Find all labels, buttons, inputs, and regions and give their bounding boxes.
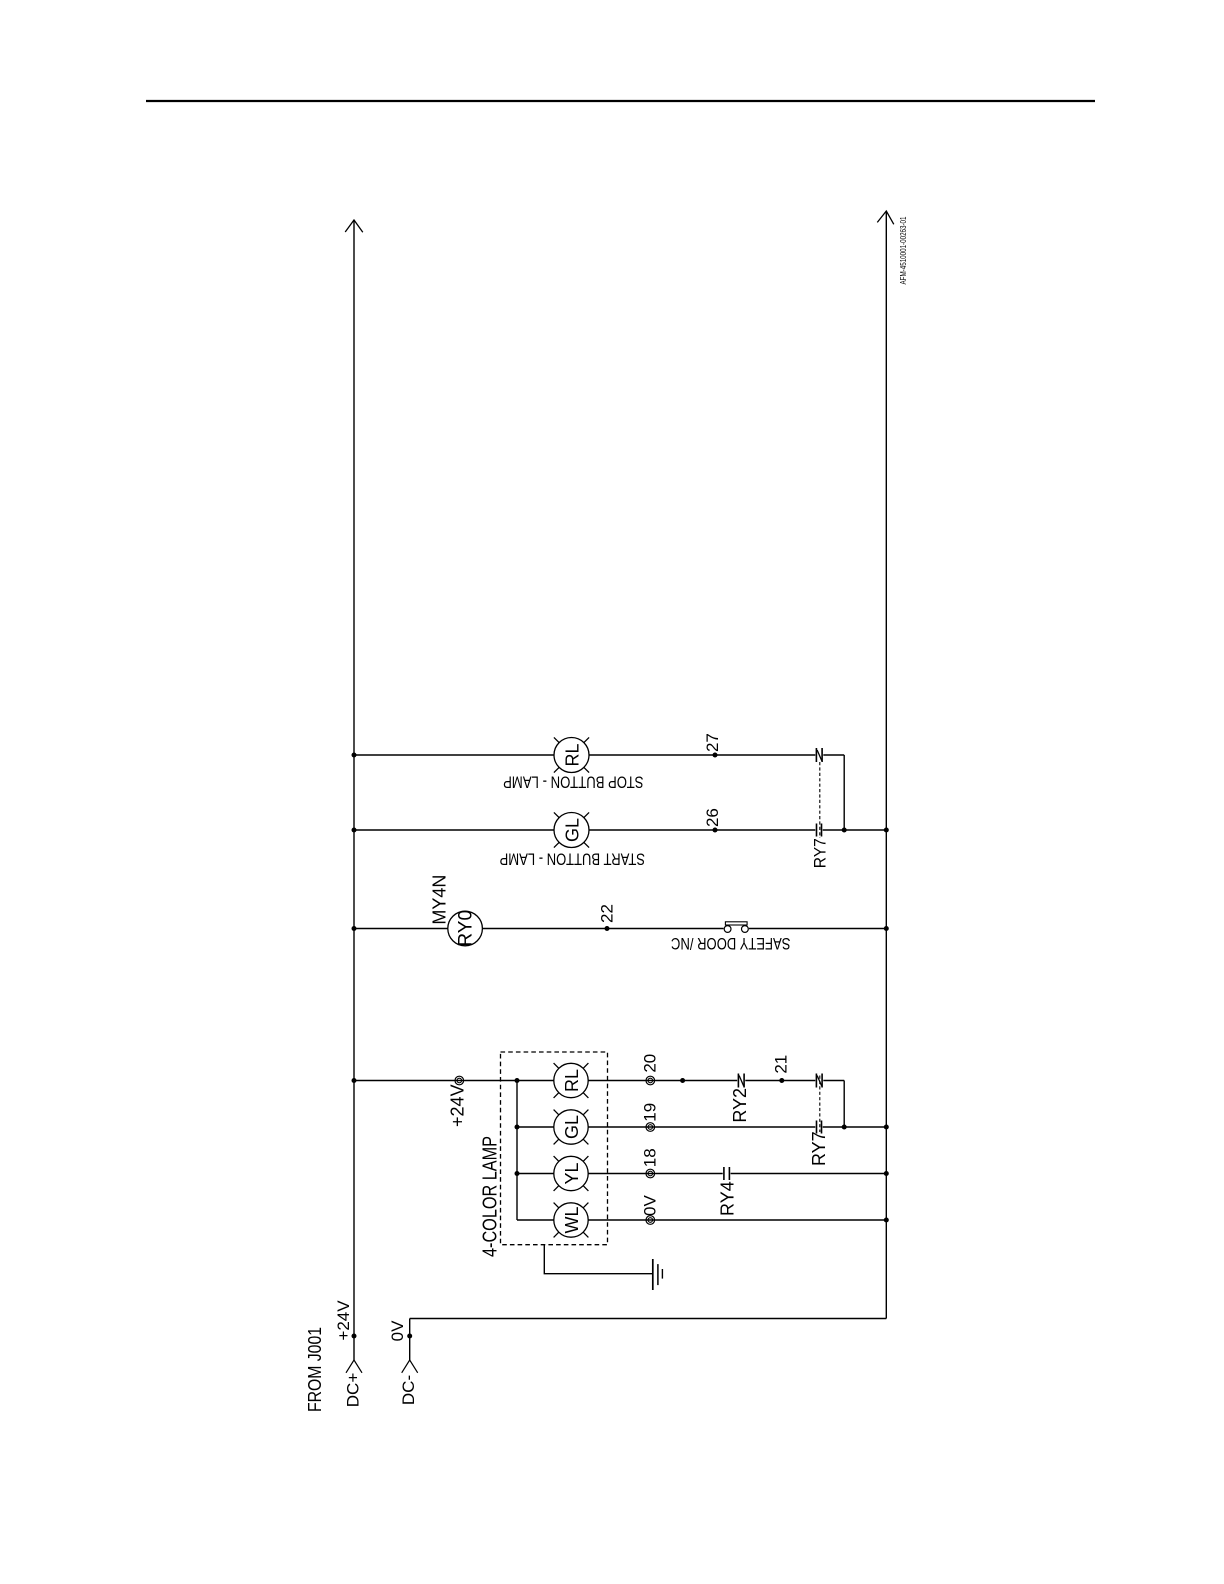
svg-text:RY7: RY7: [810, 838, 829, 868]
node rail2 GL: [884, 828, 889, 833]
node bus row3: [515, 1171, 520, 1176]
wire RY0 branch: [354, 928, 886, 930]
svg-text:RL: RL: [563, 743, 583, 766]
svg-text:4-COLOR LAMP: 4-COLOR LAMP: [480, 1136, 502, 1257]
connector DC+ chevron: [346, 1360, 362, 1373]
svg-text:19: 19: [641, 1103, 660, 1122]
lamp RL2: [554, 1063, 588, 1097]
terminal 0V: [646, 1216, 655, 1225]
svg-text:START BUTTON - LAMP: START BUTTON - LAMP: [500, 850, 646, 869]
svg-text:+24V: +24V: [334, 1300, 353, 1341]
node rail RY0: [352, 926, 357, 931]
switch SAFETY DOOR /NC: [724, 926, 731, 933]
svg-text:18: 18: [641, 1148, 660, 1167]
node +24V label: [352, 1334, 357, 1339]
node rail2 row3: [884, 1171, 889, 1176]
wire DC- feed: [409, 1319, 411, 1361]
wire lamp feed row1: [354, 1081, 844, 1128]
contact RY7b NO (GL branch): [817, 824, 822, 837]
svg-text:0V: 0V: [388, 1320, 407, 1341]
lamp WL2: [554, 1203, 588, 1237]
terminal 20: [646, 1076, 655, 1085]
lamp GL: [554, 813, 589, 848]
svg-text:GL: GL: [562, 1115, 582, 1139]
svg-text:STOP BUTTON - LAMP: STOP BUTTON - LAMP: [503, 772, 644, 791]
terminal 18: [646, 1169, 655, 1178]
wire 0V bottom horizontal: [410, 1318, 887, 1320]
svg-text:MY4N: MY4N: [430, 875, 450, 925]
svg-text:RY2: RY2: [730, 1088, 750, 1123]
svg-text:21: 21: [772, 1055, 791, 1074]
node RY7c join: [842, 1125, 847, 1130]
node 26: [713, 828, 718, 833]
node rail lampfeed: [352, 1078, 357, 1083]
svg-text:SAFETY DOOR /NC: SAFETY DOOR /NC: [671, 934, 791, 953]
wire lamp bus: [516, 1081, 518, 1221]
mech link RY7 top pair: [819, 762, 821, 838]
mech link RY7 right pair: [819, 1076, 821, 1133]
terminal +24V: [455, 1076, 464, 1085]
contact RY7d NO (row2): [817, 1121, 822, 1134]
svg-text:+24V: +24V: [448, 1084, 468, 1127]
svg-text:DC+: DC+: [344, 1373, 363, 1408]
svg-text:RL: RL: [562, 1069, 582, 1092]
ground: [652, 1259, 654, 1290]
connector DC- chevron: [402, 1360, 418, 1373]
lamp RL: [554, 738, 589, 773]
0V rail arrowhead: [877, 211, 894, 224]
wire GL branch: [354, 829, 886, 831]
+24V rail arrowhead: [345, 220, 363, 232]
node bus row1: [515, 1078, 520, 1083]
lamp YL2: [554, 1156, 588, 1190]
svg-text:GL: GL: [563, 818, 583, 842]
svg-text:FROM J001: FROM J001: [305, 1327, 325, 1412]
svg-text:YL: YL: [562, 1162, 582, 1184]
wire 0V rail vertical: [885, 211, 887, 1319]
wire RL branch: [354, 755, 844, 830]
node rail2 row4: [884, 1218, 889, 1223]
node after 20: [680, 1078, 685, 1083]
terminal 19: [646, 1123, 655, 1132]
node 21: [779, 1078, 784, 1083]
contact RY7c NC (row1): [816, 1074, 822, 1088]
node 27: [713, 753, 718, 758]
relay coil RY0: [448, 911, 483, 946]
wire row3: [517, 1173, 886, 1175]
svg-text:WL: WL: [562, 1207, 582, 1234]
node rail2 row2: [884, 1125, 889, 1130]
wire ground lead: [544, 1245, 652, 1274]
4-color lamp dashed box: [501, 1052, 608, 1245]
node 22: [605, 926, 610, 931]
node bus row2: [515, 1125, 520, 1130]
svg-text:RY4: RY4: [717, 1181, 737, 1216]
svg-text:AFM-4510001-00263-01: AFM-4510001-00263-01: [899, 216, 908, 284]
node rail2 RY0: [884, 926, 889, 931]
svg-text:22: 22: [598, 904, 617, 923]
lamp GL2: [554, 1110, 588, 1144]
contact RY4 NO (row3): [724, 1167, 730, 1180]
wire +24V rail vertical: [353, 220, 355, 1360]
node rail RL: [352, 753, 357, 758]
node 0V label: [407, 1334, 412, 1339]
node rail GL: [352, 828, 357, 833]
svg-text:26: 26: [703, 808, 722, 827]
node RY7a join: [842, 828, 847, 833]
wire row2: [517, 1126, 886, 1128]
svg-text:RY7: RY7: [809, 1131, 829, 1166]
svg-text:27: 27: [703, 733, 722, 752]
svg-text:20: 20: [641, 1054, 660, 1073]
wire row4: [517, 1219, 886, 1221]
contact RY7a NC (RL branch): [816, 748, 822, 762]
contact RY2 NC (row1): [738, 1074, 744, 1088]
svg-text:0V: 0V: [641, 1195, 660, 1216]
svg-text:DC-: DC-: [399, 1375, 418, 1405]
svg-text:RY0: RY0: [456, 910, 477, 947]
header rule: [146, 100, 1095, 102]
